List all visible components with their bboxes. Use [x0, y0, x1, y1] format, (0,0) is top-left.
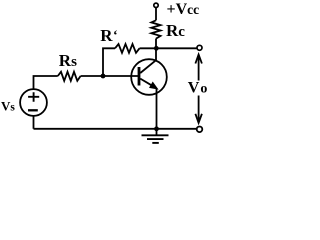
svg-text:Rc: Rc	[166, 21, 185, 40]
source Vs minus sign	[28, 109, 38, 111]
node base junction	[101, 74, 106, 79]
svg-text:+Vcc: +Vcc	[167, 1, 200, 18]
source Vs circle	[20, 89, 47, 116]
node emitter-ground junction	[154, 126, 159, 131]
svg-text:Vs: Vs	[1, 99, 15, 114]
wire base node to transistor base	[103, 75, 138, 77]
transistor Q1 collector lead	[140, 48, 156, 73]
wire top-left corner to Rs	[34, 76, 58, 90]
terminal output top	[197, 45, 202, 50]
terminal output bottom	[197, 127, 203, 133]
source Vs plus sign	[28, 92, 39, 102]
wire collector node to output terminal	[156, 47, 196, 49]
wire emitter down	[156, 89, 158, 129]
node collector junction	[154, 46, 159, 51]
wire bottom rail	[34, 128, 197, 130]
svg-text:‘: ‘	[113, 29, 118, 44]
transistor Q1 emitter lead	[140, 79, 153, 87]
transistor Q1 body circle	[131, 59, 167, 95]
resistor R'	[115, 44, 140, 53]
wire Vs bottom stem	[33, 116, 35, 129]
resistor Rc	[151, 20, 160, 38]
arrow Vo top shaft	[198, 55, 200, 81]
transistor Q1 base bar	[138, 67, 141, 86]
ground bar 3	[152, 142, 159, 144]
wire R' corner	[103, 48, 115, 76]
ground bar 1	[142, 134, 169, 136]
transistor Q1 emitter arrowhead	[149, 82, 159, 90]
arrow Vo bottom shaft	[198, 96, 200, 123]
wire R' to collector node	[140, 47, 157, 49]
ground stem	[156, 129, 158, 136]
resistor Rs	[58, 72, 81, 81]
wire Rc to collector node	[155, 39, 157, 49]
terminal +Vcc	[154, 3, 158, 7]
svg-text:Vo: Vo	[188, 80, 208, 97]
wire Vcc stem	[155, 8, 157, 21]
svg-text:Rs: Rs	[59, 51, 77, 70]
wire Rs to base node	[81, 75, 103, 77]
ground bar 2	[147, 138, 164, 140]
arrow Vo bottom head	[195, 114, 202, 123]
arrow Vo top head	[195, 55, 202, 64]
svg-text:R: R	[100, 26, 113, 45]
